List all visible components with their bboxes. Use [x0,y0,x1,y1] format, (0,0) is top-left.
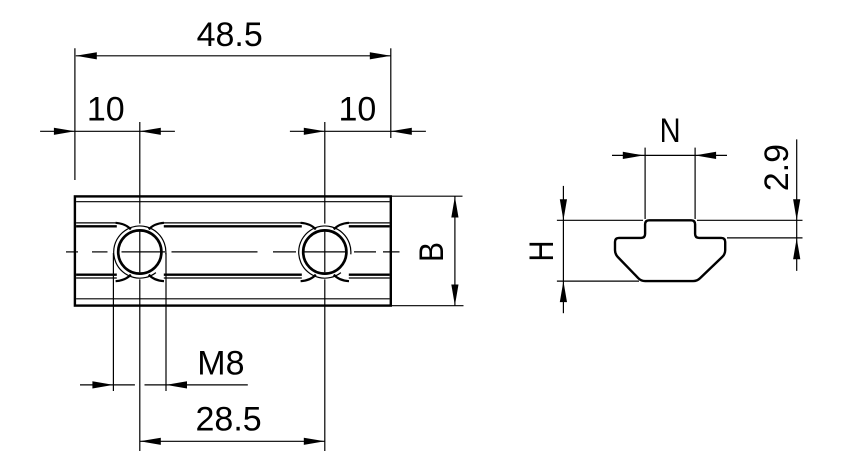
svg-text:28.5: 28.5 [196,401,262,439]
svg-text:10: 10 [87,90,125,128]
svg-text:H: H [523,241,561,262]
svg-text:N: N [660,112,681,150]
svg-text:2.9: 2.9 [758,144,796,191]
svg-text:B: B [413,242,451,262]
svg-text:M8: M8 [197,344,244,382]
svg-text:48.5: 48.5 [197,16,263,54]
svg-text:10: 10 [338,90,376,128]
